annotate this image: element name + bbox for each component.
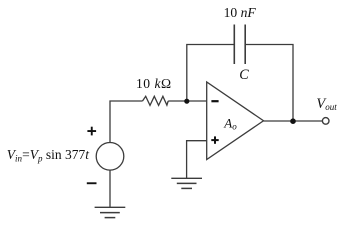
svg-text:10 nF: 10 nF bbox=[224, 5, 257, 20]
svg-text:Ao: Ao bbox=[223, 115, 237, 131]
op-amp minus sign bbox=[211, 100, 218, 102]
wire: op-amp output to terminal bbox=[264, 120, 323, 122]
ground G2 at op-amp + input bbox=[171, 177, 202, 179]
wire: feedback left vertical + top horizontal bbox=[187, 45, 234, 102]
polarity plus at source bbox=[87, 130, 96, 132]
output terminal circle bbox=[322, 118, 329, 125]
wire: source top to resistor bbox=[110, 101, 143, 143]
svg-text:C: C bbox=[239, 67, 249, 83]
wire: resistor to op-amp inverting input bbox=[168, 100, 207, 102]
ground G1 below source bbox=[95, 206, 126, 208]
op-amp U1 triangle bbox=[207, 82, 264, 160]
wire: source bottom to ground bbox=[109, 170, 111, 207]
junction node at inverting input bbox=[184, 99, 189, 104]
op-amp plus sign bbox=[211, 139, 218, 141]
svg-text:Vout: Vout bbox=[316, 96, 337, 112]
junction node at output bbox=[290, 118, 296, 124]
capacitor C right plate bbox=[244, 25, 246, 65]
wire: capacitor to right vertical down to output bbox=[246, 45, 293, 122]
capacitor C left plate bbox=[233, 25, 235, 65]
polarity minus at source bbox=[87, 182, 97, 184]
resistor R 10k zigzag bbox=[143, 96, 169, 105]
svg-text:10 kΩ: 10 kΩ bbox=[136, 76, 172, 91]
wire: non-inverting input to ground bbox=[187, 141, 207, 179]
source VS circle bbox=[96, 143, 124, 171]
svg-text:Vin=Vp sin 377t: Vin=Vp sin 377t bbox=[7, 147, 90, 163]
